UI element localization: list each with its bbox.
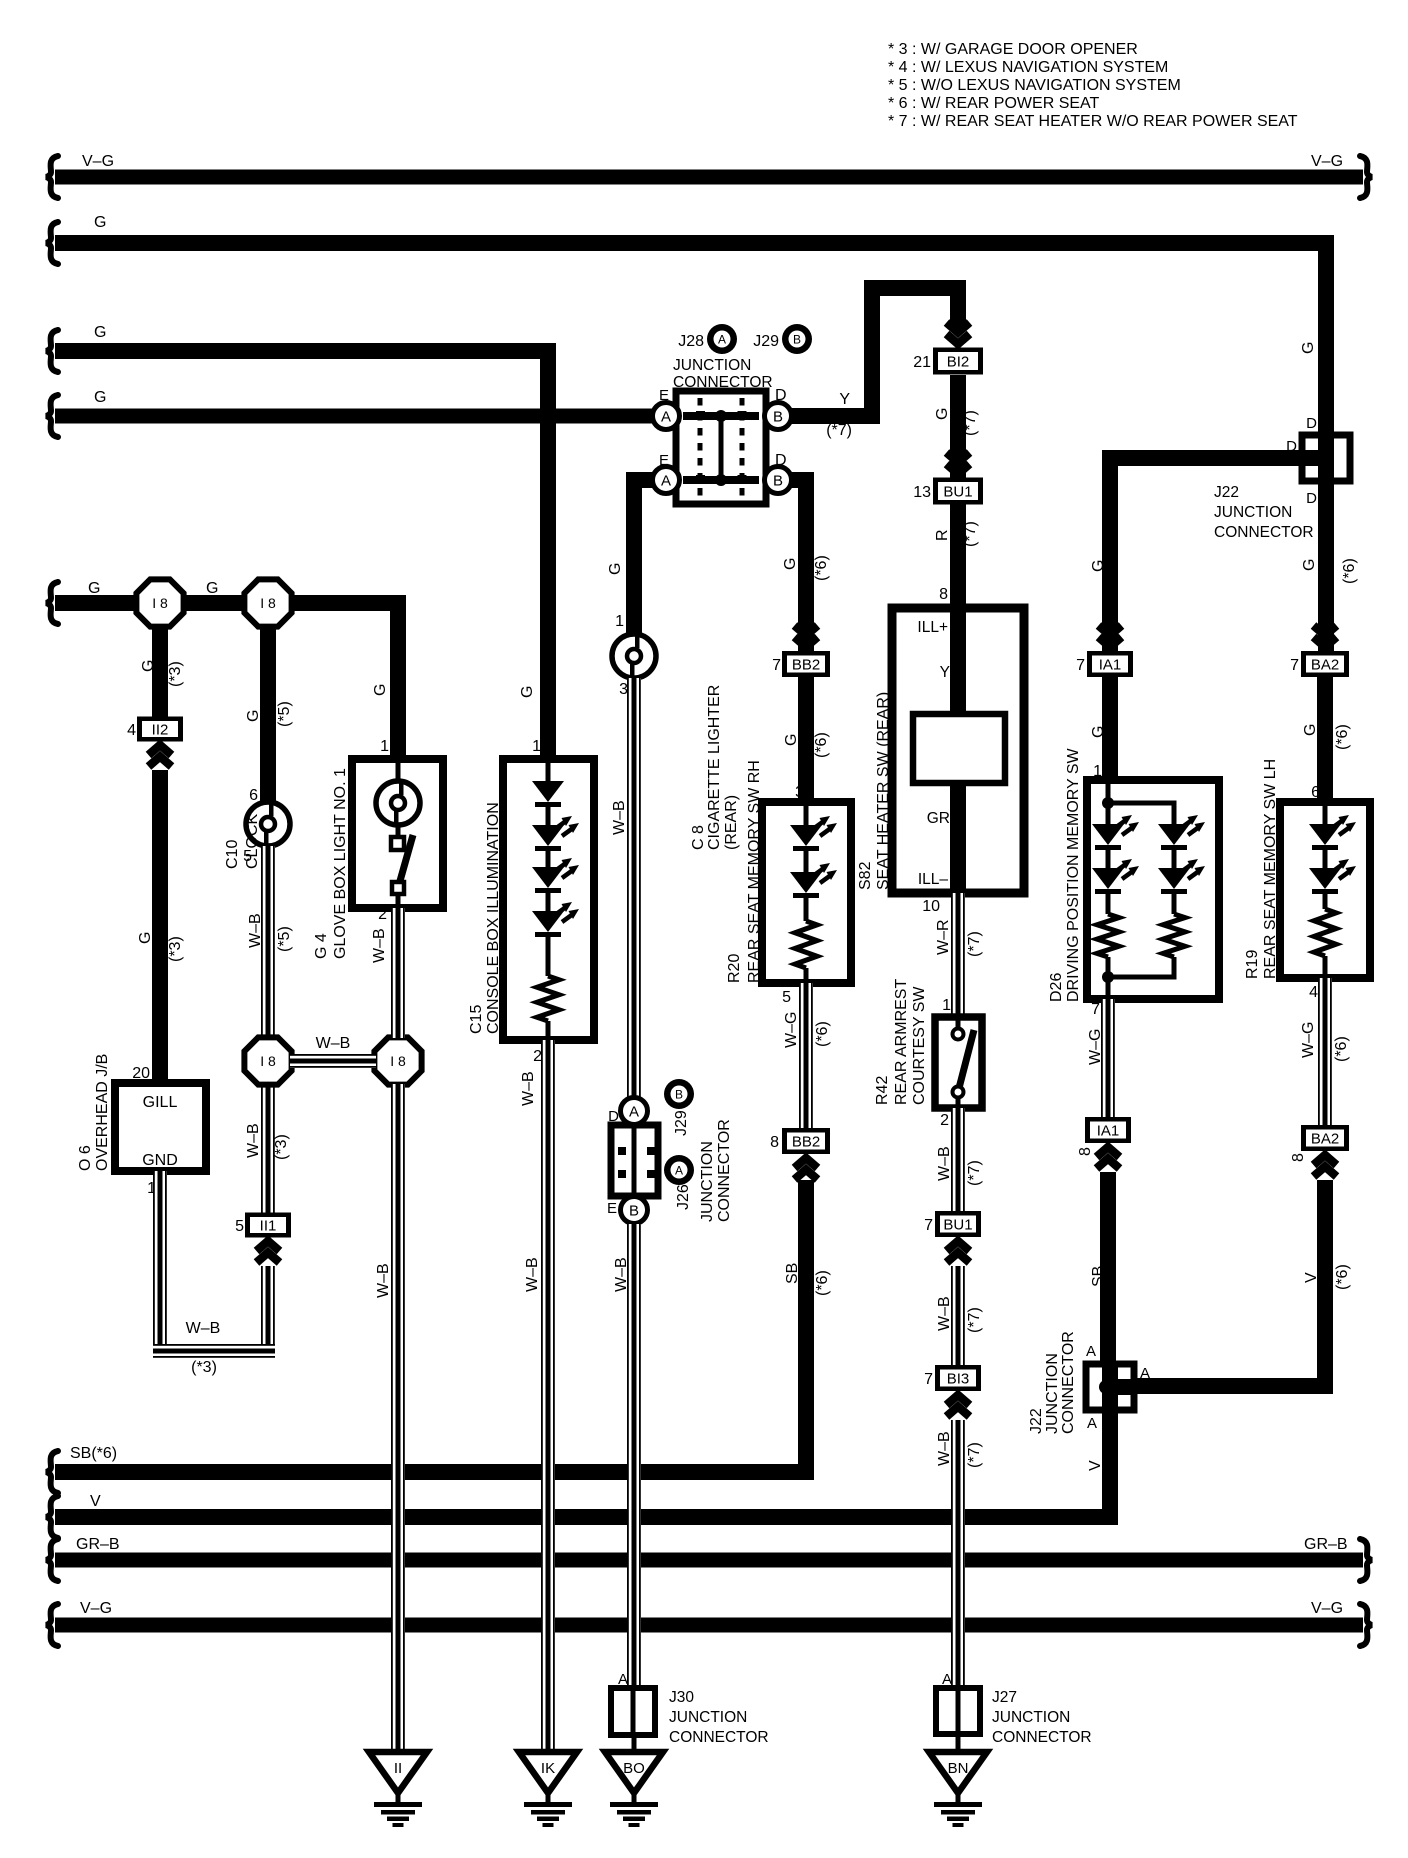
svg-text:J27: J27 — [992, 1689, 1017, 1706]
svg-text:2: 2 — [940, 1112, 949, 1129]
svg-text:5: 5 — [243, 848, 252, 865]
svg-text:2: 2 — [533, 1048, 542, 1065]
wire junction A to cigarette lighter — [634, 480, 660, 634]
wire BI2 to BU1 — [950, 375, 966, 478]
svg-text:(*6): (*6) — [1341, 558, 1358, 584]
glove box light G4 box — [352, 759, 443, 908]
svg-text:BA2: BA2 — [1311, 1131, 1339, 1148]
svg-text:B: B — [773, 409, 783, 426]
svg-text:8: 8 — [939, 586, 948, 603]
svg-text:CONNECTOR: CONNECTOR — [669, 1729, 769, 1746]
svg-text:R42: R42 — [874, 1076, 891, 1105]
svg-text:GND: GND — [142, 1152, 178, 1169]
wire C15 to ground IK (thin) — [541, 1040, 555, 1752]
clock C10 symbol — [246, 802, 290, 846]
svg-text:V–G: V–G — [1311, 153, 1343, 170]
svg-text:G 4: G 4 — [313, 933, 330, 959]
svg-text:CONNECTOR: CONNECTOR — [992, 1729, 1092, 1746]
svg-text:J30: J30 — [669, 1689, 694, 1706]
connector II1 pin 5 — [245, 1213, 291, 1238]
connector BI2 pin 21 — [933, 348, 983, 375]
svg-text:D26: D26 — [1048, 973, 1065, 1002]
arrows into BA2-7 — [1314, 637, 1337, 647]
svg-text:BU1: BU1 — [943, 1217, 972, 1234]
R19 LED 2 — [1309, 859, 1356, 894]
junction pin D/B bottom-right — [765, 467, 792, 494]
svg-text:ILL–: ILL– — [918, 871, 949, 888]
svg-text:21: 21 — [913, 354, 931, 371]
wire S82 to R42 (thin W-R) — [951, 893, 965, 1017]
C15 LED 1 — [532, 816, 579, 851]
svg-text:BI3: BI3 — [947, 1371, 970, 1388]
ground II — [369, 1752, 427, 1827]
R20 LED 2 — [790, 863, 837, 898]
wire bus V (bottom, to J22 lower) — [55, 1410, 1110, 1517]
svg-text:I 8: I 8 — [390, 1053, 406, 1069]
svg-text:V: V — [1087, 1460, 1104, 1471]
svg-text:G: G — [782, 558, 799, 570]
svg-text:B: B — [629, 1203, 639, 1220]
wire bus G #5 (to glove box light) — [55, 603, 398, 759]
wire junction mid to J30 (thin) — [627, 1224, 641, 1688]
svg-text:GLOVE BOX LIGHT NO. 1: GLOVE BOX LIGHT NO. 1 — [332, 768, 349, 959]
junction internal dashed lines — [698, 398, 703, 497]
wire bus G #2 (to J22) — [55, 243, 1326, 435]
junction internal bottom row — [683, 476, 759, 484]
wire IA1-8 to J22 lower (SB) — [1100, 1172, 1116, 1364]
S82 internal wire top — [950, 608, 966, 714]
svg-text:D: D — [1286, 438, 1297, 455]
svg-text:C10: C10 — [224, 840, 241, 869]
svg-text:J22: J22 — [1214, 484, 1239, 501]
rear seat memory SW RH R20 box — [762, 802, 851, 983]
svg-text:(*7): (*7) — [966, 1442, 983, 1468]
svg-text:4: 4 — [1309, 984, 1318, 1001]
svg-text:E: E — [659, 452, 669, 469]
wire BA2 to R19 — [1317, 677, 1333, 802]
bus GR-B left end — [46, 1539, 58, 1581]
svg-text:BB2: BB2 — [792, 657, 820, 674]
connector BB2 pin 7 — [782, 651, 830, 677]
wire IA1 to D26 — [1102, 677, 1118, 780]
junction connector J27 box — [936, 1688, 980, 1734]
wire I8 to ground II (thin) — [391, 1084, 405, 1752]
svg-text:DRIVING POSITION MEMORY SW: DRIVING POSITION MEMORY SW — [1065, 747, 1082, 1002]
wire II1 to GND loop — [261, 1266, 275, 1344]
arrows into BB2-7 — [795, 637, 818, 647]
arrows out of BB2-8 — [795, 1158, 818, 1168]
svg-text:JUNCTION: JUNCTION — [699, 1141, 716, 1222]
svg-text:Y: Y — [940, 664, 950, 681]
svg-text:G: G — [1302, 724, 1319, 736]
bus V-G bottom left end — [46, 1604, 58, 1646]
junction mid pin E/B — [621, 1197, 648, 1224]
svg-text:A: A — [661, 409, 671, 426]
svg-text:SB: SB — [784, 1263, 801, 1284]
wire J22 to IA1 branch — [1110, 458, 1302, 655]
junction connector J22 upper box — [1302, 435, 1350, 481]
svg-text:G: G — [1090, 726, 1107, 738]
svg-text:G: G — [94, 324, 106, 341]
R20 resistor — [795, 921, 817, 968]
svg-text:J26: J26 — [675, 1184, 692, 1210]
svg-text:GR–B: GR–B — [1304, 1536, 1348, 1553]
svg-text:COURTESY SW: COURTESY SW — [911, 986, 928, 1105]
svg-text:8: 8 — [1077, 1147, 1094, 1156]
svg-text:W–B: W–B — [371, 928, 388, 963]
junction pin E/A bottom-left — [653, 467, 680, 494]
D26 left LED 2 — [1092, 859, 1139, 894]
arrows out of BI3 — [947, 1395, 970, 1405]
wire R20 to BB2-8 (thin) — [799, 983, 813, 1128]
svg-text:G: G — [783, 734, 800, 746]
svg-text:W–B: W–B — [375, 1263, 392, 1298]
svg-text:W–B: W–B — [936, 1146, 953, 1181]
svg-text:W–B: W–B — [611, 800, 628, 835]
svg-text:BO: BO — [623, 1760, 645, 1777]
arrows into IA1-7 — [1099, 637, 1122, 647]
svg-text:B: B — [675, 1088, 683, 1102]
D26 top rail — [1106, 780, 1111, 803]
svg-text:CIGARETTE LIGHTER: CIGARETTE LIGHTER — [706, 685, 723, 850]
bus V-G top left end — [46, 156, 58, 198]
svg-text:A: A — [718, 333, 726, 347]
D26 left resistor — [1097, 914, 1119, 957]
svg-text:GR–B: GR–B — [76, 1536, 120, 1553]
junction connector box (top) — [676, 391, 766, 504]
svg-text:D: D — [608, 1108, 619, 1125]
svg-text:A: A — [661, 473, 671, 490]
svg-text:* 3 : W/ GARAGE DOOR OPENER: * 3 : W/ GARAGE DOOR OPENER — [888, 41, 1138, 58]
svg-text:GR: GR — [927, 810, 950, 827]
svg-text:(*7): (*7) — [962, 521, 979, 547]
connector II2 pin 4 — [137, 717, 183, 742]
svg-text:OVERHEAD J/B: OVERHEAD J/B — [94, 1054, 111, 1171]
connector I8 on bus (right) — [244, 579, 291, 626]
svg-text:W–G: W–G — [783, 1012, 800, 1048]
D26 left LED 1 — [1106, 803, 1111, 824]
R20 LED 1 — [790, 816, 837, 851]
svg-text:W–B: W–B — [524, 1257, 541, 1292]
wire bus V-G top — [55, 170, 1363, 185]
svg-text:G: G — [94, 214, 106, 231]
bus G3 left end — [46, 330, 58, 372]
bus SB left end — [46, 1451, 58, 1493]
wire J22 through vertical — [1318, 481, 1334, 655]
svg-text:8: 8 — [1290, 1153, 1307, 1162]
svg-text:I 8: I 8 — [152, 595, 168, 611]
junction connector J30 box — [611, 1688, 655, 1735]
S82 internal wire bottom — [950, 783, 966, 893]
wire II2 to overhead J/B pin 20 — [152, 770, 168, 1083]
svg-text:1: 1 — [380, 738, 389, 755]
wire J30 to ground BO — [632, 1735, 637, 1752]
svg-text:(*7): (*7) — [966, 931, 983, 957]
junction connector mid (J26/J29) box — [611, 1125, 658, 1196]
R42 switch — [956, 1017, 961, 1029]
wire D26 to IA1-8 (thin) — [1101, 999, 1115, 1118]
wire BU1-7 to BI3 (thin) — [951, 1266, 965, 1365]
connector BB2 pin 8 — [782, 1128, 830, 1154]
svg-text:J29: J29 — [753, 333, 779, 350]
bus G2 left end — [46, 222, 58, 264]
glove lamp symbol — [376, 781, 420, 825]
svg-text:7: 7 — [1091, 1001, 1100, 1018]
bus G5 left end — [46, 582, 58, 624]
wire I8-I8 link (thin W-B) — [290, 1054, 376, 1068]
svg-text:(*3): (*3) — [167, 936, 184, 962]
connector I8 on bus (left) — [136, 579, 183, 626]
svg-text:(*5): (*5) — [276, 701, 293, 727]
svg-text:BB2: BB2 — [792, 1134, 820, 1151]
svg-text:W–B: W–B — [186, 1320, 221, 1337]
svg-text:G: G — [372, 684, 389, 696]
svg-text:JUNCTION: JUNCTION — [669, 1709, 747, 1726]
svg-text:W–B: W–B — [936, 1431, 953, 1466]
rear armrest courtesy SW R42 box — [935, 1017, 982, 1108]
svg-text:IA1: IA1 — [1099, 657, 1122, 674]
svg-text:BI2: BI2 — [947, 354, 970, 371]
svg-text:SEAT HEATER SW (REAR): SEAT HEATER SW (REAR) — [875, 692, 892, 890]
svg-text:REAR SEAT MEMORY SW RH: REAR SEAT MEMORY SW RH — [746, 760, 763, 983]
svg-text:W–R: W–R — [935, 919, 952, 955]
arrows into II2 — [149, 745, 172, 755]
bus G4 left end — [46, 395, 58, 437]
svg-text:G: G — [137, 932, 154, 944]
arrows out of BA2-8 — [1314, 1155, 1337, 1165]
connector I8 mid-right — [374, 1037, 421, 1084]
svg-text:CONNECTOR: CONNECTOR — [673, 374, 773, 391]
svg-text:2: 2 — [378, 906, 387, 923]
wire junction B lower to BB2 column — [780, 480, 806, 655]
svg-text:G: G — [1301, 559, 1318, 571]
svg-text:SB: SB — [1090, 1266, 1107, 1287]
svg-text:* 7 : W/ REAR SEAT HEATER W/O: * 7 : W/ REAR SEAT HEATER W/O REAR POWER… — [888, 113, 1298, 130]
svg-text:(REAR): (REAR) — [723, 795, 740, 850]
svg-text:CONNECTOR: CONNECTOR — [716, 1119, 733, 1222]
svg-text:A: A — [1086, 1343, 1096, 1360]
svg-text:R: R — [934, 529, 951, 541]
svg-text:R20: R20 — [726, 954, 743, 983]
svg-text:CONSOLE BOX ILLUMINATION: CONSOLE BOX ILLUMINATION — [485, 802, 502, 1034]
console box illumination C15 box — [503, 759, 594, 1040]
svg-text:(*5): (*5) — [276, 926, 293, 952]
svg-text:GILL: GILL — [143, 1094, 178, 1111]
svg-text:W–B: W–B — [520, 1071, 537, 1106]
S82 inner box — [913, 714, 1005, 783]
svg-text:REAR ARMREST: REAR ARMREST — [893, 979, 910, 1105]
svg-text:W–B: W–B — [316, 1035, 351, 1052]
svg-text:(*6): (*6) — [1334, 724, 1351, 750]
svg-text:1: 1 — [615, 613, 624, 630]
svg-text:D: D — [775, 452, 787, 469]
svg-text:(*3): (*3) — [167, 661, 184, 687]
wire J22 lower right branch — [1134, 1180, 1325, 1386]
svg-text:(*3): (*3) — [273, 1134, 290, 1160]
svg-text:CONNECTOR: CONNECTOR — [1214, 524, 1314, 541]
D26 bottom rail — [1106, 975, 1177, 980]
svg-text:J29: J29 — [673, 1110, 690, 1136]
junction pin E/A top-left — [653, 403, 680, 430]
junction pin D/B top-right — [765, 403, 792, 430]
svg-text:C 8: C 8 — [690, 825, 707, 850]
junction mid pin D/A — [621, 1098, 648, 1125]
svg-text:W–G: W–G — [1300, 1022, 1317, 1058]
wire R42 to BU1-7 (thin) — [951, 1108, 965, 1211]
svg-text:8: 8 — [770, 1134, 779, 1151]
C15 diode — [532, 781, 564, 807]
svg-text:A: A — [629, 1104, 639, 1121]
C15 LED 3 — [532, 902, 579, 937]
junction internal center line — [719, 416, 724, 480]
svg-text:G: G — [140, 660, 157, 672]
seat heater SW rear S82 box — [892, 608, 1024, 893]
svg-text:W–G: W–G — [1087, 1029, 1104, 1065]
svg-text:D: D — [1306, 490, 1317, 507]
R19 resistor — [1314, 909, 1336, 956]
svg-text:10: 10 — [922, 898, 940, 915]
svg-text:S82: S82 — [857, 861, 874, 890]
svg-text:7: 7 — [924, 1217, 933, 1234]
svg-text:SB(*6): SB(*6) — [70, 1445, 117, 1462]
wire bus GR-B — [55, 1553, 1363, 1568]
bus V-G top right end — [1360, 156, 1372, 198]
svg-text:(*6): (*6) — [1334, 1264, 1351, 1290]
wire bus V-G bottom — [55, 1618, 1363, 1633]
driving position memory SW D26 box — [1087, 780, 1219, 999]
connector IA1 pin 7 — [1087, 651, 1133, 677]
C15 internal wire — [546, 759, 551, 784]
ground IK — [519, 1752, 577, 1827]
svg-text:* 6 : W/ REAR POWER SEAT: * 6 : W/ REAR POWER SEAT — [888, 95, 1100, 112]
svg-text:II: II — [394, 1760, 402, 1777]
svg-text:G: G — [88, 580, 100, 597]
svg-text:(*7): (*7) — [966, 1307, 983, 1333]
cigarette lighter C8 symbol — [612, 634, 656, 678]
svg-text:G: G — [519, 686, 536, 698]
svg-text:V–G: V–G — [80, 1600, 112, 1617]
svg-text:II1: II1 — [260, 1218, 277, 1235]
svg-text:BA2: BA2 — [1311, 657, 1339, 674]
svg-text:CONNECTOR: CONNECTOR — [1060, 1331, 1077, 1434]
bus V left end — [46, 1496, 58, 1538]
D26 right LED 1 — [1172, 803, 1177, 824]
svg-text:R19: R19 — [1244, 950, 1261, 979]
svg-text:A: A — [675, 1164, 683, 1178]
svg-text:7: 7 — [1076, 657, 1085, 674]
svg-text:G: G — [934, 408, 951, 420]
svg-text:IK: IK — [541, 1760, 555, 1777]
wire bus G #3 (to C15) — [55, 351, 548, 759]
svg-text:B: B — [793, 333, 801, 347]
wire junction B to Y riser — [770, 288, 958, 416]
wire BI3 to J27 (thin) — [951, 1420, 965, 1688]
connector BA2 pin 7 — [1301, 651, 1349, 677]
svg-text:W–B: W–B — [936, 1296, 953, 1331]
svg-text:V: V — [90, 1493, 101, 1510]
svg-text:G: G — [607, 563, 624, 575]
R19 LED 1 — [1309, 815, 1356, 850]
svg-text:1: 1 — [532, 738, 541, 755]
connector BA2 pin 8 — [1301, 1125, 1349, 1151]
wire J22 lower to V bus — [1102, 1410, 1118, 1517]
svg-text:JUNCTION: JUNCTION — [1214, 504, 1292, 521]
svg-text:E: E — [659, 387, 669, 404]
svg-text:(*6): (*6) — [813, 732, 830, 758]
svg-text:Y: Y — [839, 391, 850, 408]
svg-text:ILL+: ILL+ — [917, 619, 948, 636]
svg-text:BN: BN — [948, 1760, 969, 1777]
svg-text:A: A — [1087, 1415, 1097, 1432]
wire BU1 to S82 — [950, 504, 966, 612]
arrows into BU1-13 — [947, 464, 970, 474]
svg-text:(*7): (*7) — [962, 410, 979, 436]
connector BU1 pin 13 — [933, 478, 983, 505]
wire J27 to ground BN — [956, 1734, 961, 1752]
svg-text:D: D — [775, 387, 787, 404]
wire I8 to clock — [260, 603, 276, 802]
wire glove to I8 (thin) — [391, 908, 405, 1038]
svg-text:7: 7 — [772, 657, 781, 674]
svg-text:(*7): (*7) — [826, 422, 852, 439]
note legend *3..*7 — [888, 41, 1298, 130]
svg-text:(*6): (*6) — [1333, 1036, 1350, 1062]
wire bus G #4 (to junction connector) — [55, 409, 666, 424]
svg-text:(*3): (*3) — [191, 1359, 217, 1376]
svg-text:* 4 : W/ LEXUS NAVIGATION SYST: * 4 : W/ LEXUS NAVIGATION SYSTEM — [888, 59, 1168, 76]
wire BB2 to R20 — [798, 677, 814, 802]
D26 right LED 2 — [1158, 859, 1205, 894]
svg-text:IA1: IA1 — [1097, 1123, 1120, 1140]
wire clock to I8 (thin W-B) — [261, 846, 275, 1038]
connector BI3 pin 7 — [935, 1365, 981, 1391]
svg-text:A: A — [1140, 1365, 1150, 1382]
ground BO — [605, 1752, 663, 1827]
svg-text:II2: II2 — [152, 722, 169, 739]
svg-text:I 8: I 8 — [260, 1053, 276, 1069]
wire I8 to II2 — [152, 603, 168, 717]
svg-text:1: 1 — [942, 997, 951, 1014]
svg-text:(*6): (*6) — [814, 1021, 831, 1047]
C15 resistor — [537, 976, 559, 1021]
svg-text:G: G — [94, 389, 106, 406]
svg-text:W–B: W–B — [613, 1257, 630, 1292]
svg-text:G: G — [206, 580, 218, 597]
svg-text:JUNCTION: JUNCTION — [992, 1709, 1070, 1726]
wire bus SB (bottom, to BB2) — [55, 1180, 806, 1472]
svg-text:B: B — [773, 473, 783, 490]
arrows out of BU1-7 — [947, 1241, 970, 1251]
svg-text:E: E — [607, 1200, 617, 1217]
svg-text:(*6): (*6) — [814, 1270, 831, 1296]
svg-text:JUNCTION: JUNCTION — [1044, 1353, 1061, 1434]
svg-text:BU1: BU1 — [943, 484, 972, 501]
arrows into II1 — [257, 1241, 280, 1251]
svg-text:D: D — [1306, 415, 1317, 432]
svg-text:4: 4 — [127, 722, 136, 739]
svg-text:* 5 : W/O LEXUS NAVIGATION SYS: * 5 : W/O LEXUS NAVIGATION SYSTEM — [888, 77, 1181, 94]
svg-text:V: V — [1303, 1272, 1320, 1283]
junction internal top row — [683, 412, 759, 420]
arrows into BI2 — [947, 334, 970, 344]
svg-text:V–G: V–G — [1311, 1600, 1343, 1617]
svg-text:(*6): (*6) — [813, 555, 830, 581]
svg-text:6: 6 — [249, 787, 258, 804]
svg-text:J28: J28 — [678, 333, 704, 350]
wire R19 to BA2-8 (thin) — [1318, 978, 1332, 1126]
wire I8 to II1 (thin) — [261, 1084, 275, 1214]
svg-text:13: 13 — [913, 484, 931, 501]
